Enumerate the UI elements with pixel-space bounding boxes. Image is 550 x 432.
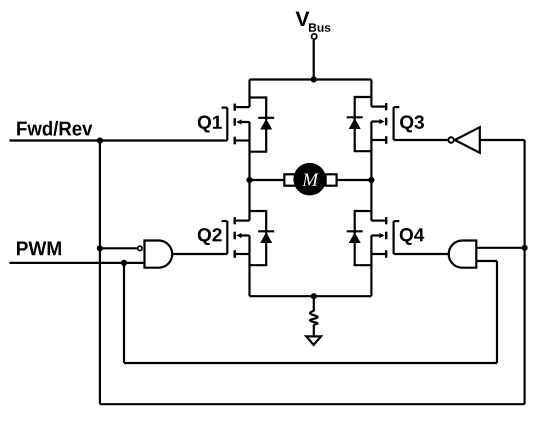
wire: inverter output to Q3 gate xyxy=(394,139,448,141)
resistor R1 (current-sense squiggle) xyxy=(310,311,318,325)
wire: PWM input xyxy=(9,262,144,264)
node: Fwd/Rev to gate tap xyxy=(97,245,103,251)
wire: Q3 source vertical xyxy=(370,140,372,180)
wire: V_Bus stem xyxy=(313,40,315,80)
node: right feedback tap xyxy=(522,245,528,251)
node: Fwd/Rev tap xyxy=(97,137,103,143)
wire: Q2 source vertical xyxy=(248,254,250,296)
wire: Fwd/Rev bottom feedback xyxy=(100,403,525,405)
node: shunt tap xyxy=(311,293,317,299)
inverter U3 xyxy=(455,127,480,153)
body diode of Q4 xyxy=(347,211,372,265)
node: motor right xyxy=(368,177,374,183)
body diode of Q3 xyxy=(347,97,372,151)
wire: Q3 drain vertical xyxy=(370,80,372,107)
wire: Q2 drain vertical xyxy=(248,180,250,221)
wire: PWM feedback rise xyxy=(496,261,498,363)
terminal V_Bus xyxy=(312,34,317,39)
label Q4 xyxy=(400,228,424,245)
label Q3 xyxy=(400,115,424,132)
wire: Fwd/Rev vertical xyxy=(99,141,101,405)
input bubble of gate U1 xyxy=(138,246,142,250)
AND gate U1 xyxy=(145,241,173,268)
wire: Fwd/Rev input xyxy=(9,139,227,141)
net label Fwd/Rev xyxy=(17,121,92,136)
wire: right feedback vertical xyxy=(523,140,525,404)
wire: shunt stem top xyxy=(313,296,315,311)
body diode of Q1 xyxy=(250,98,275,152)
wire: PWM feedback vertical xyxy=(123,263,125,363)
wire: top rail xyxy=(250,78,372,80)
AND gate U2 xyxy=(449,241,477,268)
wire: U2 top input xyxy=(476,247,524,249)
wire: inverter input xyxy=(480,139,525,141)
motor M1 terminals xyxy=(284,174,336,185)
transistor Q4 xyxy=(371,217,399,258)
label Q2 xyxy=(198,228,222,245)
power label V_Bus xyxy=(296,12,331,32)
output bubble of inverter U3 xyxy=(448,137,453,142)
wire: U2 output to Q4 gate xyxy=(394,253,450,255)
wire: U1 output to Q2 gate xyxy=(172,253,227,255)
node: V_Bus junction xyxy=(311,76,317,82)
label Q1 xyxy=(198,116,222,133)
wire: motor rail xyxy=(250,179,372,181)
wire: Q1 drain vertical xyxy=(248,80,250,108)
body diode of Q2 xyxy=(250,211,275,265)
wire: U2 bottom input xyxy=(476,260,497,262)
net label PWM xyxy=(17,242,61,256)
node: motor left xyxy=(246,177,252,183)
wire: Q4 source vertical xyxy=(370,254,372,296)
transistor Q3 xyxy=(371,103,399,144)
wire: bottom rail xyxy=(250,295,372,297)
motor M1 xyxy=(293,163,326,196)
wire: PWM bottom feedback xyxy=(124,362,497,364)
transistor Q1 xyxy=(222,104,250,145)
transistor Q2 xyxy=(222,217,250,258)
wire: shunt stem bottom xyxy=(313,325,315,336)
ground xyxy=(306,336,321,345)
wire: Q4 drain vertical xyxy=(370,180,372,221)
node: PWM tap xyxy=(121,260,127,266)
wire: Q1 source vertical xyxy=(248,141,250,181)
wire: left gate top input from Fwd/Rev xyxy=(100,247,137,249)
